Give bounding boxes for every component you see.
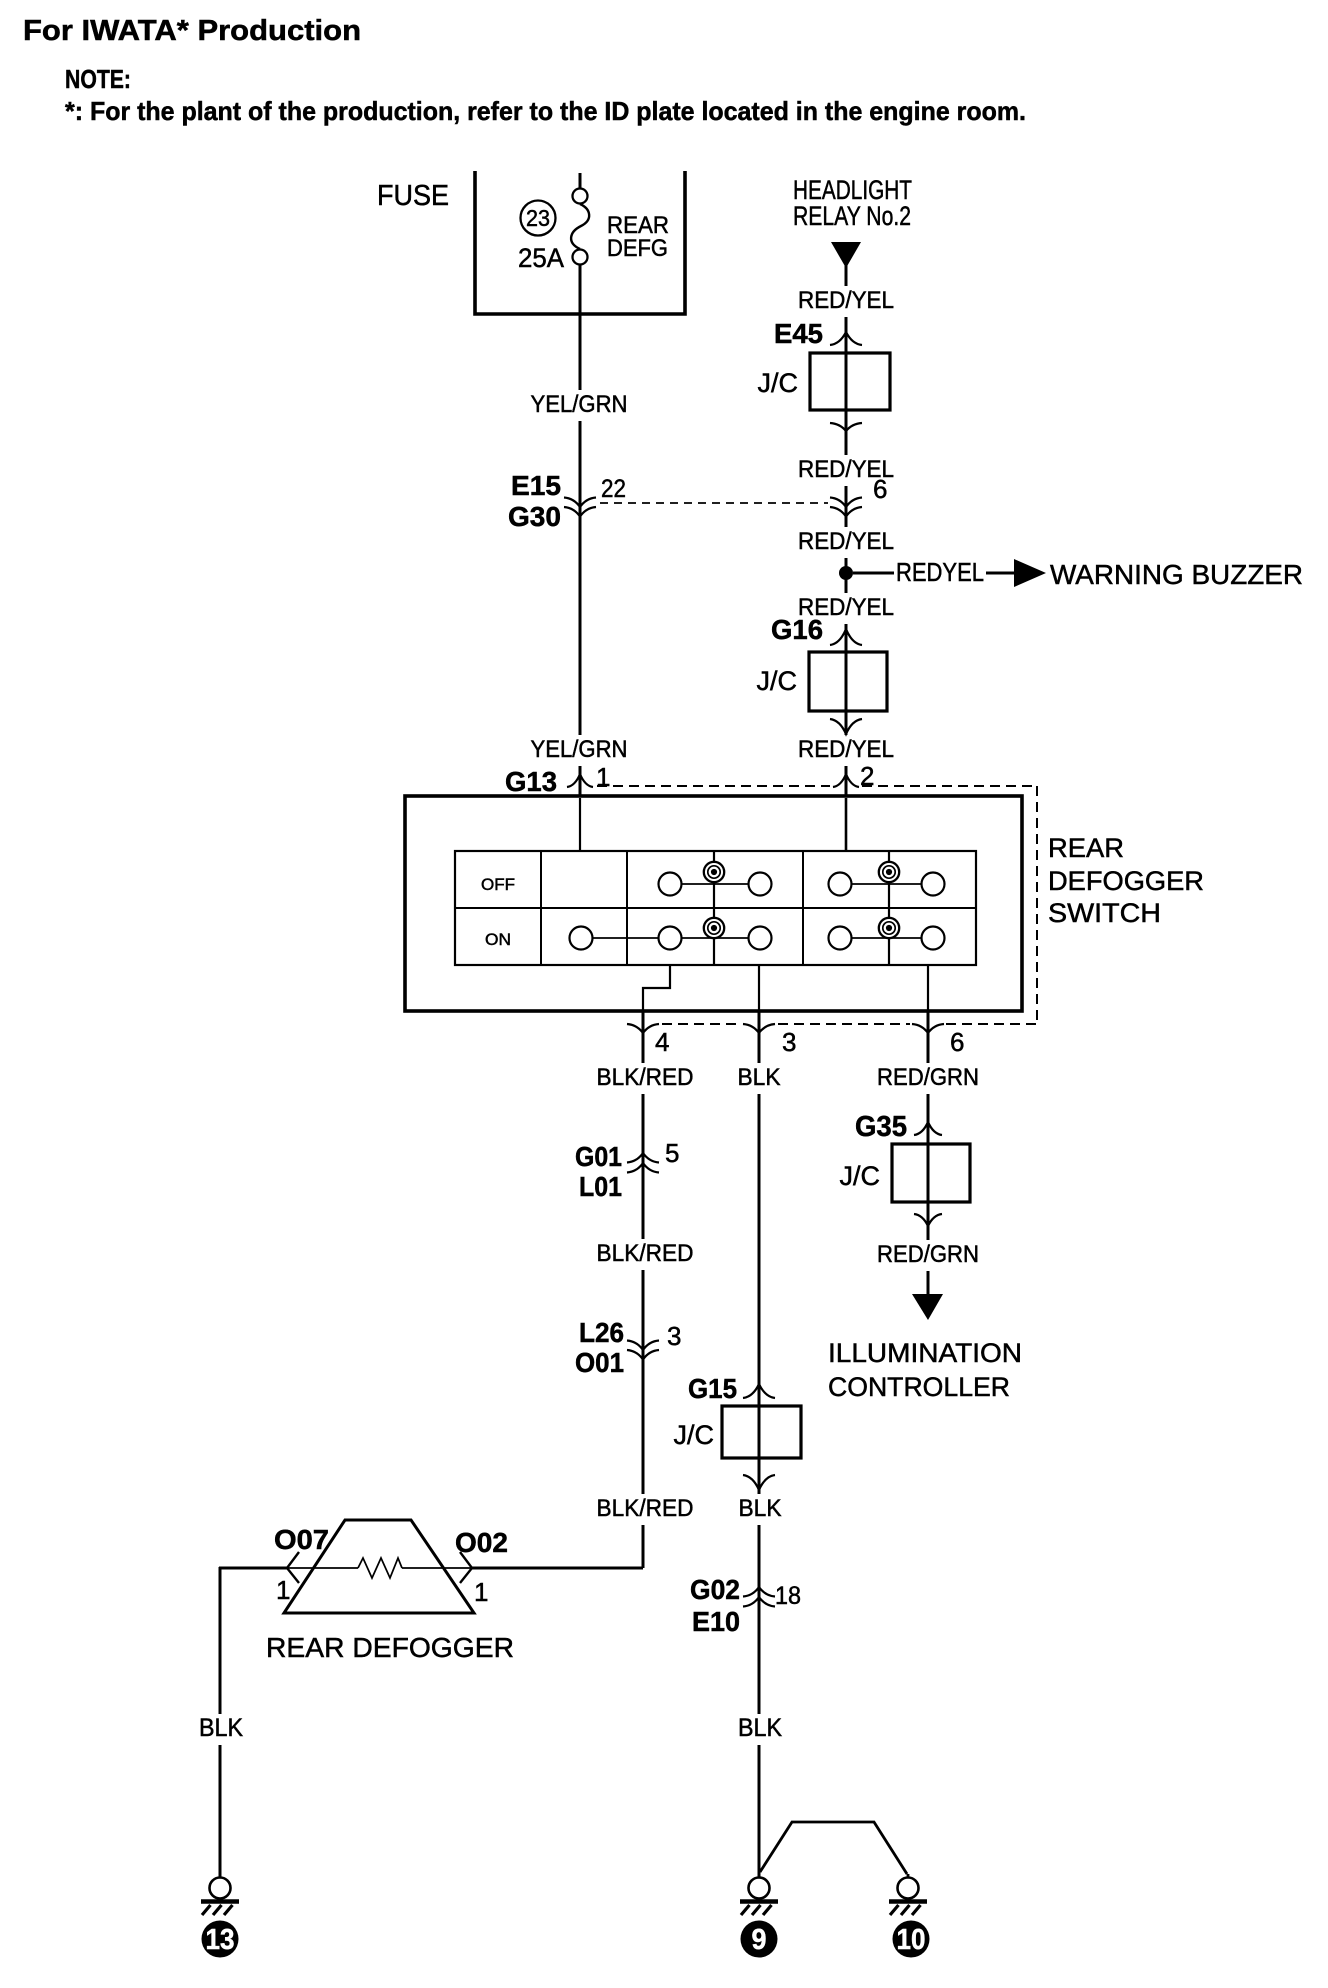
svg-text:ILLUMINATION: ILLUMINATION bbox=[828, 1338, 1022, 1368]
svg-text:3: 3 bbox=[667, 1321, 681, 1351]
svg-text:CONTROLLER: CONTROLLER bbox=[828, 1372, 1010, 1402]
svg-text:18: 18 bbox=[775, 1582, 801, 1610]
svg-text:E10: E10 bbox=[692, 1606, 740, 1637]
svg-text:E15: E15 bbox=[511, 470, 561, 501]
svg-text:BLK: BLK bbox=[739, 1495, 782, 1522]
svg-text:L26: L26 bbox=[579, 1317, 624, 1348]
svg-text:REDYEL: REDYEL bbox=[896, 557, 984, 587]
svg-text:J/C: J/C bbox=[757, 666, 798, 696]
svg-text:1: 1 bbox=[474, 1577, 488, 1607]
svg-text:YEL/GRN: YEL/GRN bbox=[531, 736, 628, 763]
svg-text:RELAY No.2: RELAY No.2 bbox=[793, 201, 911, 231]
svg-text:RED/YEL: RED/YEL bbox=[798, 736, 894, 763]
svg-text:22: 22 bbox=[601, 475, 626, 503]
svg-text:BLK: BLK bbox=[738, 1064, 781, 1091]
svg-text:5: 5 bbox=[665, 1138, 679, 1168]
svg-text:O01: O01 bbox=[575, 1347, 624, 1378]
svg-text:6: 6 bbox=[950, 1027, 964, 1057]
svg-text:23: 23 bbox=[526, 205, 550, 231]
svg-text:BLK/RED: BLK/RED bbox=[597, 1240, 694, 1267]
svg-text:1: 1 bbox=[276, 1575, 290, 1605]
svg-text:G13: G13 bbox=[505, 766, 557, 797]
svg-text:O07: O07 bbox=[274, 1524, 329, 1555]
svg-text:L01: L01 bbox=[579, 1171, 622, 1202]
svg-text:J/C: J/C bbox=[758, 368, 799, 398]
svg-text:RED/YEL: RED/YEL bbox=[798, 287, 894, 314]
svg-text:NOTE:: NOTE: bbox=[65, 64, 131, 94]
svg-text:*: For the plant of the produc: *: For the plant of the production, refe… bbox=[65, 96, 1026, 126]
svg-text:O02: O02 bbox=[455, 1527, 508, 1558]
svg-text:BLK/RED: BLK/RED bbox=[597, 1064, 694, 1091]
svg-text:J/C: J/C bbox=[674, 1420, 715, 1450]
svg-text:9: 9 bbox=[752, 1924, 767, 1956]
svg-text:RED/YEL: RED/YEL bbox=[798, 528, 894, 555]
svg-text:REAR: REAR bbox=[1048, 833, 1124, 863]
svg-text:REAR DEFOGGER: REAR DEFOGGER bbox=[266, 1632, 514, 1663]
svg-text:1: 1 bbox=[596, 762, 610, 792]
svg-text:RED/GRN: RED/GRN bbox=[877, 1064, 979, 1091]
svg-text:E45: E45 bbox=[774, 318, 823, 349]
svg-text:10: 10 bbox=[897, 1924, 926, 1956]
svg-text:DEFG: DEFG bbox=[607, 235, 668, 262]
svg-text:13: 13 bbox=[206, 1924, 235, 1956]
svg-text:SWITCH: SWITCH bbox=[1048, 898, 1161, 928]
svg-text:G16: G16 bbox=[771, 614, 823, 645]
svg-text:YEL/GRN: YEL/GRN bbox=[531, 391, 628, 418]
svg-text:ON: ON bbox=[485, 930, 511, 949]
svg-text:3: 3 bbox=[782, 1027, 796, 1057]
svg-text:G15: G15 bbox=[688, 1373, 737, 1404]
svg-text:G30: G30 bbox=[508, 501, 561, 532]
svg-text:BLK/RED: BLK/RED bbox=[597, 1495, 694, 1522]
svg-text:FUSE: FUSE bbox=[377, 180, 449, 212]
svg-text:RED/GRN: RED/GRN bbox=[877, 1241, 979, 1268]
svg-text:BLK: BLK bbox=[738, 1714, 782, 1742]
svg-text:BLK: BLK bbox=[199, 1714, 243, 1742]
svg-text:G01: G01 bbox=[575, 1141, 622, 1172]
svg-text:G35: G35 bbox=[855, 1111, 907, 1143]
svg-text:For IWATA* Production: For IWATA* Production bbox=[23, 15, 361, 47]
svg-text:4: 4 bbox=[655, 1027, 669, 1057]
svg-text:OFF: OFF bbox=[481, 875, 515, 894]
svg-text:WARNING BUZZER: WARNING BUZZER bbox=[1050, 559, 1303, 590]
svg-text:6: 6 bbox=[873, 474, 887, 504]
svg-text:25A: 25A bbox=[518, 243, 564, 273]
svg-text:G02: G02 bbox=[690, 1574, 740, 1605]
svg-text:J/C: J/C bbox=[840, 1161, 881, 1191]
svg-text:DEFOGGER: DEFOGGER bbox=[1048, 866, 1204, 896]
